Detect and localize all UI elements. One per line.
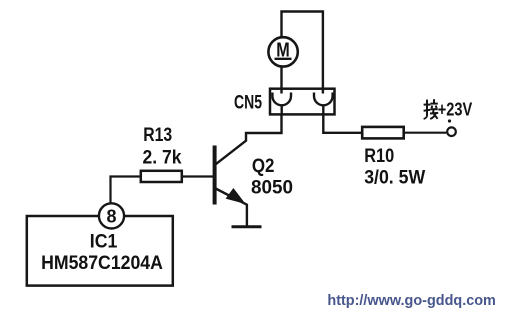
terminal +23V	[447, 127, 456, 136]
connector CN5 box	[270, 89, 335, 115]
wire top loop motor to CN5 right pin	[282, 12, 323, 94]
IC1 pin 8 circle	[99, 203, 124, 228]
svg-text:3/0. 5W: 3/0. 5W	[364, 168, 425, 189]
wire base from R13	[183, 175, 213, 177]
wire R10 to +23V terminal	[405, 132, 446, 134]
motor M1	[268, 37, 297, 66]
wire CN5 left pin to Q2 collector	[216, 116, 282, 165]
label 接 (Chinese: connect)	[424, 99, 439, 119]
ground	[232, 225, 262, 228]
IC1 box	[27, 216, 173, 286]
svg-text:HM587C1204A: HM587C1204A	[41, 253, 163, 274]
resistor R13	[141, 171, 182, 182]
resistor R10	[362, 127, 404, 138]
emitter arrow	[226, 188, 246, 204]
wire R13 to IC1 pin 8	[111, 177, 140, 203]
CN5 right socket cup	[314, 93, 333, 116]
svg-text:8050: 8050	[251, 178, 293, 199]
wire CN5 right pin to R10	[323, 116, 361, 133]
transistor Q2 base bar	[213, 146, 217, 205]
CN5 left socket cup	[272, 93, 291, 116]
svg-text:CN5: CN5	[234, 93, 262, 114]
svg-text:2. 7k: 2. 7k	[143, 147, 182, 168]
wire motor bottom to CN5 left cup	[280, 66, 282, 94]
svg-text:+23V: +23V	[438, 100, 473, 120]
svg-text:R13: R13	[143, 125, 172, 146]
svg-text:Q2: Q2	[252, 156, 275, 177]
transistor Q2 emitter	[216, 189, 247, 228]
svg-text:R10: R10	[364, 146, 394, 167]
dot above terminal	[448, 119, 451, 122]
svg-text:http://www.go-gddq.com: http://www.go-gddq.com	[327, 292, 496, 309]
svg-text:8: 8	[106, 207, 116, 227]
svg-text:IC1: IC1	[90, 232, 118, 253]
